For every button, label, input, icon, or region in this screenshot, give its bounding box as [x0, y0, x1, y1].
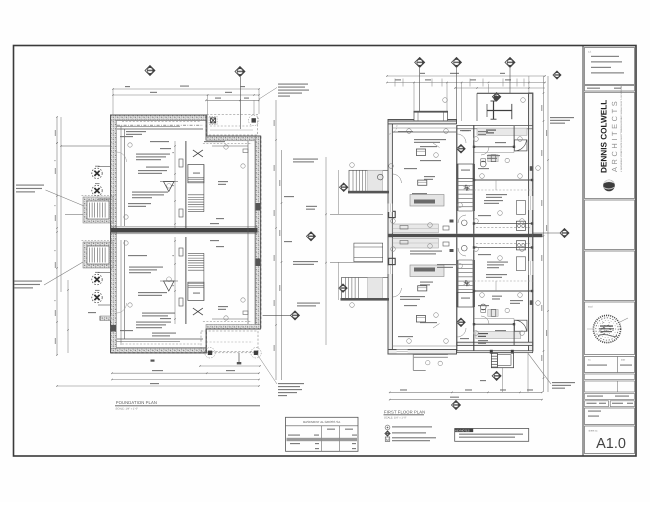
shaft toilet upper	[462, 220, 468, 226]
grid line R3	[509, 68, 511, 93]
wall upper y180	[474, 179, 533, 181]
left plan perimeter outline	[111, 115, 261, 353]
grid bubble diamond A	[145, 66, 155, 76]
right plan vdim rot text	[541, 105, 542, 361]
door arc entry upper	[392, 174, 401, 183]
bed room label lower	[487, 262, 508, 263]
top-right note text	[278, 84, 308, 85]
room number upper	[216, 218, 224, 219]
first floor left wall	[388, 121, 392, 354]
circle marker bath lower	[505, 308, 509, 312]
kitchen fixture marks lower	[443, 242, 449, 246]
extra door arc left plan upper	[117, 152, 127, 162]
more text right plan B	[404, 168, 417, 169]
legend symbol 2	[385, 431, 390, 436]
right vertical dim line 2	[281, 150, 283, 380]
foundation wall bottom-right part	[206, 325, 261, 330]
architect logo box	[585, 92, 635, 198]
wall vert x514 lower	[513, 324, 515, 345]
shaft arcs lower	[457, 328, 466, 337]
inner wall face bottom	[117, 347, 207, 349]
living room text upper	[414, 139, 446, 140]
wall return bottom left	[100, 316, 111, 321]
porch outline top	[477, 92, 529, 94]
bedroom secondary lines upper	[474, 152, 514, 154]
bottom wall window gap	[397, 349, 408, 355]
title block left edge	[582, 46, 584, 456]
top-right note leader	[259, 88, 277, 100]
left note block 1	[16, 185, 44, 186]
washer dryer lower	[516, 241, 525, 250]
sheet outer border	[14, 46, 637, 457]
more text right plan C	[404, 305, 417, 306]
window gap right wall lower	[528, 261, 533, 275]
wall lower y324	[474, 323, 514, 325]
left note leader 1	[46, 190, 85, 206]
grid line below diamond B	[239, 77, 241, 129]
more text right plan A	[420, 146, 437, 147]
inner wall face top	[117, 120, 207, 122]
more text left plan lower A	[138, 292, 167, 293]
grid bubble diamond B	[235, 67, 245, 77]
interior dim string upper	[174, 141, 176, 228]
between-plans note 4	[297, 303, 320, 304]
svg-text:KEYNOTES: KEYNOTES	[455, 430, 469, 433]
svg-text:no.: no.	[588, 359, 591, 362]
note leader lower room	[433, 324, 440, 329]
entry stoop lower left	[342, 278, 389, 300]
ext line right plan a	[413, 83, 415, 112]
title block project info box	[585, 48, 635, 85]
wall lower y291	[474, 290, 533, 292]
extra micro text right plan 8	[460, 338, 469, 339]
stair shaft wall right lower	[473, 237, 475, 351]
more text left plan upper A	[138, 170, 167, 171]
dryer tick 2	[238, 353, 240, 363]
garage label lower	[218, 306, 228, 307]
keynote circles left plan	[124, 143, 245, 320]
wall step top	[205, 115, 207, 140]
architect seal	[593, 315, 620, 342]
stair diamond lower	[457, 318, 465, 326]
ext line left plan a	[112, 89, 114, 115]
bottom right note text	[278, 383, 304, 384]
first floor bottom wall left part	[388, 350, 457, 355]
note text lower room B	[142, 313, 175, 314]
bottom leader L	[412, 354, 414, 370]
svg-text:FIRST FLOOR PLAN: FIRST FLOOR PLAN	[384, 409, 425, 414]
more text left plan lower B	[128, 255, 147, 256]
between-plans note 2	[306, 206, 317, 207]
door tick right wall upper	[256, 203, 261, 211]
circle marker bath upper	[505, 158, 509, 162]
note text lower room D	[152, 333, 176, 334]
note leader upper room	[433, 143, 440, 148]
right vertical dim line 1	[275, 100, 277, 380]
first floor title underline	[384, 414, 425, 416]
stair wall upper unit	[185, 141, 187, 228]
first floor bottom wall right part	[457, 342, 533, 345]
left horiz leader	[61, 145, 111, 147]
extra door arc left plan lower	[117, 303, 127, 313]
shaft toilet lower	[462, 245, 468, 251]
area table outer	[286, 417, 359, 451]
svg-text:FOUNDATION PLAN: FOUNDATION PLAN	[116, 400, 157, 405]
keynote bubbles	[350, 98, 541, 344]
more text right plan F	[478, 305, 489, 306]
right wall glyph upper	[530, 166, 533, 171]
door jamb lower 1	[179, 298, 183, 306]
ext line left plan c	[207, 95, 209, 136]
dim texts right plan top	[420, 73, 425, 74]
wall step bottom	[205, 329, 207, 353]
door jamb upper 1	[179, 159, 183, 167]
interior dashed line bottom room	[122, 343, 200, 345]
door jamb dots upper	[473, 146, 533, 225]
misc text right wall	[510, 300, 523, 301]
left plan bottom dim line 2	[112, 372, 259, 374]
bay area hline lower	[98, 272, 111, 274]
bed box upper	[516, 201, 525, 215]
vanity upper	[488, 155, 498, 162]
pilaster marker top 1	[209, 116, 217, 124]
door arc bath lower	[481, 316, 489, 324]
window gap left wall upper	[388, 204, 393, 213]
door tick right wall lower	[256, 259, 261, 267]
first floor right wall	[529, 93, 533, 351]
keynotes box	[455, 429, 529, 442]
closet wall lower	[474, 247, 533, 249]
elevation marker lower	[164, 281, 175, 291]
between plans vline x324 ticks	[325, 214, 327, 216]
bath texts upper	[495, 142, 506, 143]
svg-text:4 SMITHFIELD STREET SUITE 1200: 4 SMITHFIELD STREET SUITE 1200 PITTSBURG…	[620, 85, 623, 172]
date-scale row	[585, 401, 609, 407]
svg-text:DENNIS COLWELL: DENNIS COLWELL	[600, 100, 609, 173]
foundation dashed outline	[111, 115, 261, 353]
project no box	[585, 408, 635, 425]
door swing X upper	[193, 150, 203, 157]
bath label lower	[492, 296, 502, 297]
right plan bottom dim 1	[390, 391, 542, 393]
dresser mark lower	[491, 310, 496, 317]
stair treads lower	[458, 259, 472, 261]
right side vert dim 1	[543, 76, 545, 392]
extra micro text left plan 1	[120, 136, 133, 137]
left plan top dimension line 1	[113, 88, 259, 90]
kitchen label upper	[412, 193, 427, 194]
column footing F1	[92, 166, 102, 179]
keynote circle stair lower	[167, 277, 172, 282]
porch grid diamond	[492, 93, 500, 101]
shaft arcs upper	[457, 134, 466, 143]
drawn-by row	[585, 394, 635, 400]
title block empty box 2	[585, 251, 635, 301]
right wall ext vline	[527, 353, 529, 392]
foundation plan title underline	[115, 405, 260, 407]
interior beam line bottom	[117, 341, 181, 343]
lower porch inner dashed line	[207, 352, 259, 354]
foundation wall top-right part	[206, 136, 261, 141]
cabinet sink marks	[400, 226, 408, 230]
grid diamond R2	[452, 57, 462, 67]
more text left plan upper B	[128, 203, 151, 204]
ext line left plan b	[258, 89, 260, 114]
left note leader 2	[44, 262, 83, 285]
extra micro text left plan 6	[120, 330, 133, 331]
lower porch dashed outline	[201, 331, 258, 352]
revision table	[585, 357, 635, 373]
elevation marker upper	[164, 182, 175, 192]
ext line right plan c	[461, 83, 463, 122]
kitchen island upper	[410, 195, 444, 207]
left property line	[325, 157, 327, 345]
stoop diamond lower	[339, 284, 347, 292]
toilet lower	[480, 304, 486, 310]
demising wall right plan	[388, 234, 542, 237]
window gap right wall upper	[528, 196, 533, 210]
window well bay lower	[83, 242, 113, 268]
left vertical dim line 2	[60, 117, 62, 292]
foundation wall right	[256, 136, 261, 329]
bay window top	[414, 112, 448, 122]
area table rows	[288, 435, 300, 436]
extra micro text right plan 5	[486, 194, 507, 195]
between-plans note 3	[293, 261, 318, 262]
sofa glyph upper A	[416, 149, 425, 156]
left plan top dimension line 2	[113, 94, 259, 96]
stair treads upper	[458, 181, 472, 183]
stair shaft wall left lower	[456, 237, 458, 351]
inner wall face right	[254, 141, 256, 324]
porch outline bottom	[491, 353, 513, 368]
right wall glyph lower	[530, 300, 533, 305]
window gap left wall lower	[388, 266, 393, 275]
door arc upper	[388, 125, 397, 134]
foundation wall left	[111, 115, 117, 353]
legend text 1	[392, 426, 432, 427]
kitchen cabinets lower	[393, 238, 439, 248]
pilaster marker top 2	[249, 115, 259, 125]
dashed line lower	[203, 321, 252, 323]
svg-text:A1.0: A1.0	[596, 436, 626, 452]
misc micro text right of left plan	[284, 196, 294, 197]
note text lower room A	[129, 267, 163, 268]
extra micro text right plan 6	[486, 274, 507, 275]
kitchen island lower	[410, 265, 444, 277]
plot date strip	[585, 86, 635, 92]
title block empty box 1	[585, 200, 635, 250]
keyed diamond with leader	[263, 314, 291, 316]
grid line R2	[456, 68, 458, 121]
note text upper room A	[126, 131, 146, 132]
column footing F3	[92, 272, 102, 285]
entry stoop upper left	[349, 170, 388, 192]
left dim segs	[338, 170, 340, 214]
ext line right plan d	[488, 84, 490, 93]
sofa glyph upper B	[418, 180, 427, 185]
stair treads upper unit	[188, 194, 204, 196]
stair diamond upper	[457, 145, 465, 153]
column footing F4	[92, 290, 102, 303]
small text near stair lower	[160, 318, 171, 319]
living label lower	[420, 282, 433, 283]
door arc entry lower	[392, 288, 401, 297]
left note block 2	[14, 281, 42, 282]
door jamb lower 2	[179, 248, 183, 256]
extra micro text right plan 1	[398, 131, 413, 132]
foundation wall bottom-left part	[111, 349, 207, 354]
bath texts lower	[495, 330, 506, 331]
kitchen fixture marks upper	[443, 226, 449, 230]
fireplace upper	[389, 211, 396, 217]
garage label upper	[218, 181, 228, 182]
right plan vdim rot text2	[546, 130, 547, 336]
left vertical dim line 3	[67, 280, 69, 353]
svg-text:SCALE: 1/4" = 1'-0": SCALE: 1/4" = 1'-0"	[384, 416, 407, 419]
hall text upper	[462, 130, 471, 131]
right margin note 1	[550, 117, 574, 118]
wall vert x514 upper	[513, 126, 515, 147]
right plan top dim line 1	[387, 75, 545, 77]
grid diamond R3	[505, 57, 515, 67]
legend text 3	[392, 437, 436, 438]
stair wall lower unit	[185, 237, 187, 324]
demising wall left plan	[111, 228, 258, 233]
right plan top dim line 3	[455, 87, 545, 89]
svg-text:SCALE: 1/4" = 1'-0": SCALE: 1/4" = 1'-0"	[116, 408, 139, 411]
svg-text:ARCHITECTS: ARCHITECTS	[610, 99, 619, 172]
legend symbol 3	[385, 437, 389, 441]
fireplace lower	[389, 258, 396, 264]
setback hline lower	[330, 262, 383, 264]
porch leader diagonal	[528, 353, 551, 384]
right side vert dim 2	[547, 76, 549, 392]
star marker upper	[464, 185, 470, 191]
area table title row	[286, 425, 359, 427]
left plan top dimension line 3	[206, 99, 259, 101]
dashed line upper	[203, 142, 252, 144]
toilet upper	[480, 161, 486, 167]
living room text lower	[410, 251, 442, 252]
window well bay upper	[83, 197, 113, 223]
interior dim string lower	[174, 237, 176, 324]
bay area hline upper	[98, 166, 111, 168]
door jamb dots lower	[473, 246, 533, 325]
upper porch left plan marks	[210, 125, 253, 127]
note text upper room B	[136, 154, 170, 155]
extra micro text left plan 4	[210, 223, 219, 224]
ext line right plan b	[446, 83, 448, 112]
right plan perimeter outline	[388, 121, 457, 354]
grid line R1	[419, 68, 421, 112]
extra micro text right plan 2	[478, 131, 488, 132]
kitchen cabinets upper	[393, 224, 439, 233]
exterior stair bottom	[491, 353, 497, 355]
porch column bottom 1	[205, 348, 215, 358]
small text near stair upper	[160, 148, 171, 149]
right margin note 2	[552, 382, 575, 383]
left plan bottom dim line 3	[112, 379, 259, 381]
bed box lower	[516, 257, 525, 271]
architect logo circle	[603, 180, 615, 192]
porch step texts	[480, 380, 486, 381]
right plan bottom dim 2	[390, 399, 542, 401]
entry south wall	[457, 351, 533, 353]
column footing F2	[92, 183, 102, 196]
stair landing box lower	[188, 282, 204, 300]
setback hline upper	[330, 213, 383, 215]
shower box upper	[515, 140, 528, 151]
dining label upper	[424, 176, 435, 177]
living note upper	[420, 160, 441, 161]
foundation dashdot top	[117, 124, 203, 126]
interior dashed line top room	[122, 121, 200, 123]
right plan top dim line 2	[387, 82, 545, 84]
star marker lower	[464, 280, 470, 286]
upper porch dashed outline	[207, 115, 258, 136]
extra micro text left plan 3	[204, 141, 225, 142]
right diamond mid	[533, 232, 560, 234]
porch column bottom 2	[251, 348, 261, 358]
dim tick texts bottom left	[88, 312, 96, 313]
note text lower room C	[136, 322, 171, 323]
porch floor band	[477, 128, 527, 135]
left plan garage marks	[243, 149, 248, 153]
powder room box upper	[457, 164, 474, 179]
svg-text:sheet no.: sheet no.	[589, 430, 599, 433]
left plan bottom dim line 1	[200, 365, 260, 367]
washer dryer upper	[516, 221, 525, 230]
note text upper room C	[146, 167, 169, 168]
ext line right plan e	[528, 76, 530, 93]
strip 2	[585, 381, 635, 392]
shower box lower	[515, 320, 528, 331]
porch H column	[493, 101, 495, 119]
svg-text:seal: seal	[588, 306, 593, 309]
sheet number box	[585, 426, 635, 454]
entry recess lines	[414, 353, 448, 355]
dryer tick 1	[151, 360, 155, 362]
vanity lower	[488, 310, 498, 317]
entry keynote circles	[426, 361, 430, 365]
stair diamond bottom	[492, 371, 501, 380]
bottom diamond	[452, 401, 461, 410]
first floor top wall	[388, 120, 457, 124]
note lower left	[400, 296, 425, 297]
foundation wall top-left part	[111, 115, 207, 120]
bedroom secondary lines lower	[474, 318, 514, 320]
door arc bath upper	[481, 147, 489, 155]
thin strip	[585, 374, 635, 380]
keynote circle stair upper	[167, 184, 172, 189]
top dim extension comb	[395, 79, 524, 87]
stair landing box upper	[188, 165, 204, 183]
seal box	[585, 302, 635, 355]
left horiz leader 2	[65, 213, 84, 215]
bay window top bar	[414, 111, 449, 113]
stoop circle upper	[378, 174, 384, 180]
grid diamond R4	[553, 71, 561, 79]
right vdim rot text2	[279, 180, 280, 291]
sofa glyph lower A	[416, 316, 425, 323]
shaft side dark bands lower	[456, 260, 458, 307]
extra micro text left plan 2	[150, 141, 169, 142]
dim texts above left top dims	[125, 86, 130, 87]
stair shaft wall right upper	[473, 125, 475, 234]
grid bubble diamond right	[307, 232, 316, 241]
bed room label upper	[487, 155, 500, 156]
